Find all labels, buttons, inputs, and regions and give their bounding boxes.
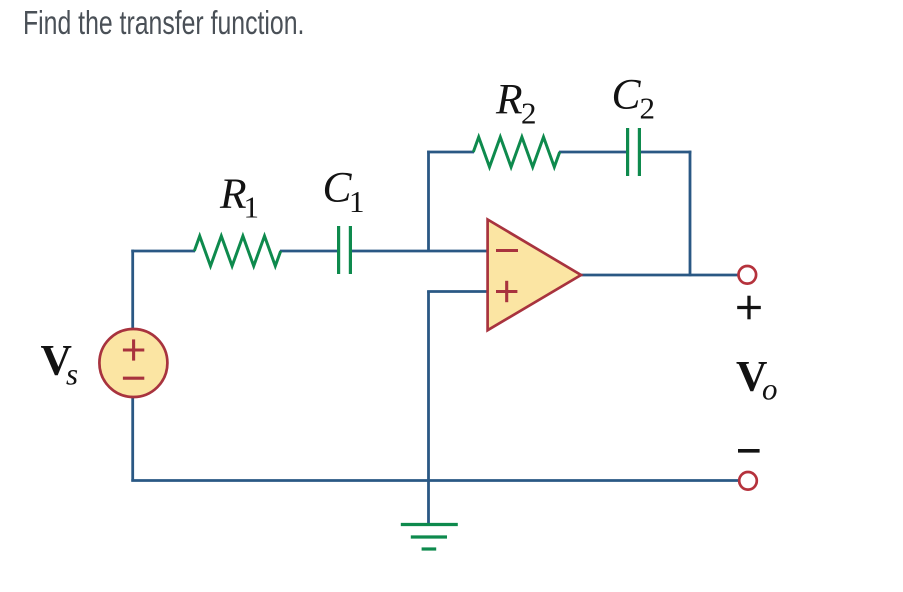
- wire between R1 and C1: [280, 250, 338, 253]
- op-amp minus sign: [496, 249, 518, 252]
- voltage source Vs circle: [99, 329, 167, 397]
- wire non-inverting input horizontal: [427, 290, 488, 293]
- svg-text:s: s: [66, 357, 78, 392]
- svg-text:C: C: [612, 71, 642, 119]
- wire C1 to op-amp inverting input: [351, 250, 489, 253]
- wire bottom horizontal: [131, 479, 739, 482]
- output terminal top: [739, 266, 757, 284]
- wire ground vertical: [427, 291, 430, 525]
- wire feedback C2 to right corner: [640, 151, 692, 154]
- wire left vertical source top: [131, 250, 134, 330]
- svg-text:2: 2: [640, 91, 656, 126]
- capacitor C1: [339, 226, 351, 274]
- svg-text:o: o: [762, 372, 778, 407]
- op-amp U1: [488, 220, 581, 331]
- voltage source plus sign: [123, 339, 144, 360]
- output plus sign: [737, 296, 761, 320]
- wire feedback top left segment: [427, 151, 474, 154]
- svg-text:1: 1: [349, 184, 365, 219]
- wire feedback between R2 and C2: [559, 151, 627, 154]
- svg-text:R: R: [495, 76, 523, 124]
- voltage source minus sign: [123, 377, 144, 380]
- svg-text:1: 1: [244, 190, 260, 225]
- ground: [401, 525, 458, 550]
- resistor R1: [194, 236, 280, 266]
- resistor R2: [473, 137, 559, 167]
- op-amp plus sign: [496, 281, 517, 302]
- output minus sign: [738, 449, 760, 453]
- wire input horizontal left segment: [131, 250, 195, 253]
- wire feedback right vertical: [689, 151, 692, 277]
- output terminal bottom: [739, 472, 757, 490]
- svg-text:R: R: [219, 170, 247, 218]
- svg-text:2: 2: [521, 96, 537, 131]
- wire feedback left vertical: [427, 151, 430, 252]
- wire output horizontal: [579, 274, 739, 277]
- capacitor C2: [628, 128, 640, 176]
- wire left vertical source bottom: [131, 397, 134, 482]
- svg-text:C: C: [323, 164, 353, 212]
